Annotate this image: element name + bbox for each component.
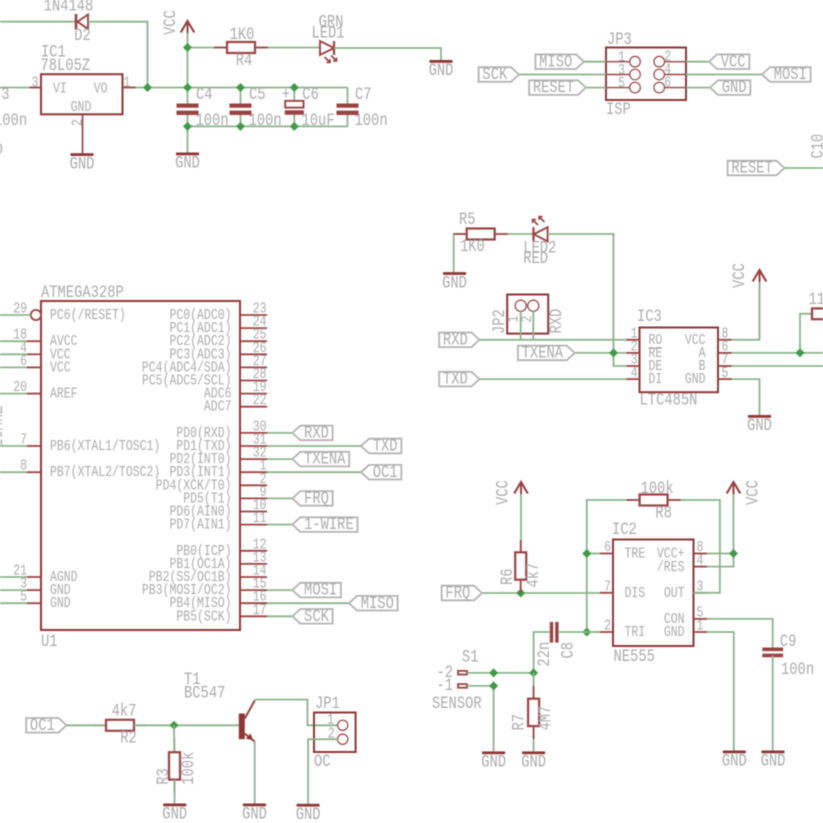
svg-text:PB7(XTAL2/TOSC2): PB7(XTAL2/TOSC2)	[50, 464, 160, 481]
svg-text:6: 6	[664, 74, 671, 91]
svg-text:RXD: RXD	[304, 423, 329, 443]
svg-text:U1: U1	[41, 632, 58, 652]
svg-text:IC3: IC3	[637, 307, 662, 327]
svg-text:7: 7	[604, 578, 611, 595]
microcontroller U1 ATMEGA328P	[41, 283, 240, 652]
svg-text:11: 11	[253, 510, 267, 527]
wire JP3 pin6 to GND	[686, 87, 710, 89]
svg-text:PB5(SCK): PB5(SCK)	[176, 608, 231, 625]
svg-text:GND: GND	[175, 153, 200, 173]
svg-text:JP1: JP1	[315, 694, 340, 714]
wire T1 emitter to GND	[254, 742, 256, 804]
svg-text:R8: R8	[655, 503, 672, 523]
svg-text:OUT: OUT	[664, 585, 685, 602]
svg-text:SCK: SCK	[304, 607, 329, 627]
R7 body	[528, 699, 539, 726]
VCC symbol at IC2	[733, 485, 735, 554]
wire to U1 AREF	[0, 393, 27, 395]
svg-text:4M7: 4M7	[536, 706, 556, 731]
capacitor C3 (cut off at left edge)	[0, 85, 27, 131]
svg-text:GND: GND	[722, 751, 747, 771]
svg-text:SCK: SCK	[482, 65, 507, 85]
wire C8 left to sensor node	[534, 632, 550, 673]
junction R6/FRQ	[516, 588, 525, 597]
wire T1 collector to JP1 pin1	[255, 700, 338, 726]
ground for S1	[482, 751, 505, 754]
net label GND	[710, 80, 750, 95]
wire R8 to IC2 OUT	[668, 500, 720, 593]
wire IC3 GND pin down	[732, 379, 760, 415]
svg-text:RESET: RESET	[731, 158, 772, 178]
resistor R7 4M7	[509, 699, 555, 731]
ground for JP1	[297, 804, 320, 807]
capacitor C9 100n	[762, 632, 814, 680]
wire R7 to GND	[533, 726, 535, 751]
svg-text:BC547: BC547	[184, 683, 225, 703]
svg-text:RXD: RXD	[443, 330, 468, 350]
wire to U1 /RESET	[0, 314, 31, 316]
svg-text:R5: R5	[459, 210, 476, 230]
svg-text:C10: C10	[808, 134, 823, 159]
svg-text:R3: R3	[154, 768, 174, 785]
svg-text:ATMEGA328P: ATMEGA328P	[41, 283, 124, 303]
wire to U1 GND	[0, 589, 27, 591]
wire to U1 AVCC	[0, 340, 27, 342]
IC2 pin 4	[694, 566, 708, 568]
U1 pin 23 (PC0(ADC0))	[240, 314, 267, 316]
svg-text:4k7: 4k7	[524, 563, 544, 588]
junction	[236, 122, 245, 131]
voltage regulator IC1 78L05Z	[30, 42, 136, 153]
net label RESET	[728, 161, 785, 176]
U1 pin 3 (GND)	[27, 589, 41, 591]
U1 pin 24 (PC1(ADC1))	[240, 327, 267, 329]
svg-text:C8: C8	[558, 642, 578, 659]
svg-text:OC1: OC1	[30, 716, 55, 736]
LED1 GRN	[311, 12, 344, 62]
svg-text:GND: GND	[0, 140, 3, 160]
wire RESET to C10 at right edge	[785, 167, 823, 169]
svg-text:AREF: AREF	[50, 385, 78, 402]
svg-text:GND: GND	[481, 752, 506, 772]
LED2 RED	[523, 217, 556, 269]
net label 1-WIRE	[292, 517, 357, 532]
wire IC2 pin4 to VCC	[707, 554, 734, 567]
svg-text:IC2: IC2	[612, 520, 637, 540]
net label MISO	[349, 596, 398, 611]
svg-text:1K0: 1K0	[230, 25, 255, 45]
wire S1 -2 to C8/R7 node	[467, 672, 534, 674]
svg-text:TXENA: TXENA	[522, 343, 564, 363]
svg-text:JP2: JP2	[490, 309, 510, 334]
wire TXD to IC3 DI	[480, 378, 627, 380]
wire JP3 pin4 to MOSI	[686, 74, 762, 76]
pin 2	[82, 114, 84, 153]
svg-text:-1: -1	[436, 676, 453, 696]
wire IC3 A to right edge	[732, 352, 823, 354]
svg-text:22: 22	[253, 392, 267, 409]
wire LED2 anode to TXENA node	[548, 234, 614, 353]
svg-text:VCC: VCC	[730, 263, 750, 288]
IC2 pin 5	[694, 618, 708, 620]
VCC symbol at IC3	[759, 273, 761, 340]
svg-text:7: 7	[20, 431, 27, 448]
svg-text:GND: GND	[442, 273, 467, 293]
wire U1 PB4(MISO) to MISO	[267, 602, 349, 604]
wire JP1 pin2 to GND	[308, 739, 338, 804]
svg-text:4: 4	[697, 552, 704, 569]
U1 pin 15 (PB3(MOSI/OC2))	[240, 589, 267, 591]
junction	[236, 83, 245, 92]
wire collector	[254, 699, 256, 701]
net label MISO	[535, 54, 584, 69]
IC2 pin 1	[694, 631, 708, 633]
pin header JP2 RXD jumper	[490, 295, 567, 335]
U1 pin 2 (PD4(XCK/T0))	[240, 484, 267, 486]
component lead stubs	[93, 48, 681, 793]
ground for R3	[163, 804, 186, 807]
diode D2 1N4148	[44, 0, 94, 45]
capacitor C5 100n	[230, 85, 282, 131]
svg-text:GND: GND	[242, 804, 267, 823]
svg-text:VCC: VCC	[50, 359, 71, 376]
net label OC1	[26, 718, 66, 733]
wire to U1 PB7(XTAL2/TOSC2)	[0, 471, 27, 473]
wire GND bottom bus	[188, 125, 348, 127]
VCC symbol at R6	[520, 485, 522, 552]
net label OC1	[361, 465, 401, 480]
svg-text:C9: C9	[780, 632, 797, 652]
U1 pin 28 (PC5(ADC5/SCL))	[240, 380, 267, 382]
junction TRE	[582, 549, 591, 558]
U1 pin 19 (ADC6)	[240, 393, 267, 395]
wire IC3 B to right edge	[732, 365, 823, 367]
net label FRQ	[442, 586, 482, 601]
wire to U1 VCC	[0, 353, 27, 355]
svg-text:11: 11	[809, 290, 823, 310]
U1 pin 6 (VCC)	[27, 366, 41, 368]
net label TXD	[439, 372, 479, 387]
wire LED1 cathode to GND	[334, 48, 441, 60]
svg-text:GND: GND	[521, 752, 546, 772]
svg-text:MISO: MISO	[361, 593, 394, 613]
pin 1	[123, 87, 136, 89]
svg-text:1N4148: 1N4148	[44, 0, 94, 16]
svg-text:8: 8	[20, 458, 27, 475]
wire U1 PD2(INT0) to TXENA	[267, 458, 292, 460]
wire IC2 GND pin down	[707, 632, 734, 751]
wire R2 to T1 base	[134, 724, 239, 726]
net label SCK	[292, 609, 332, 624]
IC3 pin 3 (DE)	[627, 365, 640, 367]
svg-text:MOSI: MOSI	[774, 65, 807, 85]
R8 body	[640, 495, 668, 506]
net label RXD	[292, 426, 332, 441]
wire MISO to JP3 pin1	[584, 61, 606, 63]
svg-text:4k7: 4k7	[112, 701, 137, 721]
svg-text:TXD: TXD	[443, 369, 468, 389]
svg-text:GND: GND	[71, 99, 92, 116]
svg-text:GND: GND	[722, 78, 747, 98]
IC2 pin 7 (DIS)	[600, 592, 613, 594]
svg-text:2: 2	[69, 119, 86, 126]
U1 pin 4 (VCC)	[27, 353, 41, 355]
svg-text:C7: C7	[355, 85, 372, 105]
wire TRE to TRI	[587, 554, 600, 633]
RS485 transceiver IC3 LTC485N	[627, 307, 732, 410]
svg-text:5: 5	[722, 365, 729, 382]
svg-text:DI: DI	[649, 371, 663, 388]
svg-text:D2: D2	[74, 25, 91, 45]
wire R5 to LED2	[495, 233, 534, 235]
pin 3	[30, 87, 42, 89]
U1 pin 29 (PC6(/RESET))	[31, 310, 41, 320]
svg-text:6: 6	[604, 539, 611, 556]
svg-text:22n: 22n	[535, 642, 555, 667]
U1 pin 11 (PD7(AIN1))	[240, 524, 267, 526]
svg-text:100n: 100n	[0, 111, 27, 131]
wire U1 PB5(SCK) to SCK	[267, 615, 292, 617]
svg-text:20: 20	[13, 379, 27, 396]
ground for T1	[243, 804, 266, 807]
svg-text:ADC7: ADC7	[204, 399, 232, 416]
svg-text:100n: 100n	[249, 111, 282, 131]
svg-text:100n: 100n	[196, 111, 229, 131]
junction on -2 wire	[489, 668, 498, 677]
svg-text:LTC485N: LTC485N	[640, 390, 698, 410]
wire U1 PD3(INT1) to OC1	[267, 471, 361, 473]
U1 pin 20 (AREF)	[27, 393, 41, 395]
svg-text:RXD: RXD	[547, 309, 567, 334]
wire C9 to GND	[772, 655, 774, 750]
junction	[183, 43, 192, 52]
junction	[143, 83, 152, 92]
svg-text:VCC: VCC	[493, 480, 513, 505]
svg-text:GND: GND	[70, 154, 95, 174]
junction R2/R3/base	[169, 721, 178, 730]
resistor R5 1K0	[459, 210, 495, 257]
U1 pin 18 (AVCC)	[27, 340, 41, 342]
net label MOSI	[762, 67, 811, 82]
wire IC3 VCC pin up	[732, 270, 760, 340]
wire JP3 pin2 to VCC	[686, 61, 709, 63]
R2 body	[106, 720, 134, 731]
svg-text:MOSI: MOSI	[304, 580, 337, 600]
wire R3 to GND	[174, 780, 176, 804]
wire IC2 CON to C9	[707, 619, 773, 649]
svg-text:VO: VO	[94, 80, 108, 97]
net label TXD	[361, 439, 401, 454]
svg-text:SENSOR: SENSOR	[432, 694, 482, 714]
net label MOSI	[292, 583, 341, 598]
U1 pin 16 (PB4(MISO))	[240, 602, 267, 604]
wire R6 to FRQ line	[520, 580, 522, 593]
svg-text:10uF: 10uF	[302, 111, 335, 131]
U1 pin 5 (GND)	[27, 602, 41, 604]
ground for R7	[522, 751, 545, 754]
svg-text:4: 4	[631, 365, 638, 382]
ground for R5	[443, 272, 466, 275]
net label TXENA	[518, 346, 575, 361]
svg-text:GND: GND	[664, 624, 685, 641]
net label TXENA	[292, 452, 349, 467]
resistor R3 100k	[154, 752, 199, 785]
junction	[183, 83, 192, 92]
wire junction to R3	[173, 725, 175, 752]
svg-text:78L05Z: 78L05Z	[41, 55, 91, 75]
svg-text:2: 2	[604, 618, 611, 635]
VCC symbol top	[187, 24, 189, 48]
svg-text:GND: GND	[685, 371, 706, 388]
U1 pin 26 (PC3(ADC3))	[240, 353, 267, 355]
wire FRQ to IC2 DIS	[482, 592, 600, 594]
junction TXENA/LED2/RE/DE	[609, 348, 618, 357]
wire TXENA node to IC3 DE	[614, 353, 627, 366]
resistor R2 4k7	[106, 701, 137, 748]
svg-text:GND: GND	[761, 751, 786, 771]
svg-text:100k: 100k	[179, 752, 199, 785]
ground under IC1	[71, 153, 94, 156]
svg-text:1: 1	[697, 618, 704, 635]
U1 pin 13 (PB1(OC1A))	[240, 563, 267, 565]
svg-text:PD7(AIN1): PD7(AIN1)	[169, 516, 231, 533]
pin header JP3 ISP	[606, 30, 686, 120]
svg-text:NE555: NE555	[614, 647, 655, 667]
svg-text:TXENA: TXENA	[304, 449, 346, 469]
svg-text:VCC: VCC	[721, 52, 746, 72]
IC3 pin 7 (B)	[718, 365, 732, 367]
wire VCC to R4	[188, 47, 228, 49]
resistor at right edge (cut off)	[800, 290, 823, 353]
U1 pin 10 (PD6(AIN0))	[240, 511, 267, 513]
svg-text:MISO: MISO	[539, 52, 572, 72]
wire from left edge to D2 cathode	[0, 21, 76, 23]
capacitor C7 100n	[337, 85, 388, 131]
svg-text:6: 6	[20, 353, 27, 370]
U1 pin 9 (PD5(T1))	[240, 497, 267, 499]
wire to U1 AGND	[0, 576, 27, 578]
svg-text:S1: S1	[462, 647, 479, 667]
ground under C4	[176, 153, 199, 156]
wire VCC top bus	[136, 87, 348, 89]
wire JP2 pin1 down	[520, 311, 522, 340]
wire bottom bus to GND	[187, 126, 189, 152]
IC3 pin 8 (VCC)	[718, 339, 732, 341]
svg-text:RESET: RESET	[533, 78, 574, 98]
ground for LED1	[430, 60, 453, 63]
svg-text:PB6(XTAL1/TOSC1): PB6(XTAL1/TOSC1)	[50, 438, 160, 455]
capacitor C6 10uF polarized	[282, 85, 335, 131]
svg-text:ISP: ISP	[606, 100, 631, 120]
U1 pin 22 (ADC7)	[240, 406, 267, 408]
svg-text:GND: GND	[747, 416, 772, 436]
resistor R4 1K0	[227, 25, 255, 71]
svg-text:100n: 100n	[355, 111, 388, 131]
junction on -1 wire	[489, 681, 498, 690]
pin header JP1 OC	[314, 694, 356, 772]
net label RESET	[529, 80, 586, 95]
IC3 pin 4 (DI)	[627, 378, 640, 380]
resistor R4 body	[227, 42, 255, 53]
wire to U1 PB6(XTAL1/TOSC1)	[0, 445, 27, 447]
R5 body	[467, 229, 495, 240]
svg-text:5: 5	[618, 75, 625, 92]
wire RESET to JP3 pin5	[586, 87, 606, 89]
wire OC1 to R2	[67, 724, 107, 726]
wire JP2 pin2 down	[532, 311, 534, 340]
svg-text:TRI: TRI	[625, 624, 646, 641]
resistor R6 4k7	[498, 552, 544, 587]
svg-text:+: +	[282, 85, 290, 105]
wire C8 right to TRI	[559, 631, 600, 633]
svg-text:DIS: DIS	[625, 585, 646, 602]
U1 pin 21 (AGND)	[27, 576, 41, 578]
wire TRE node up to R8	[587, 500, 640, 554]
ground for IC2	[723, 751, 746, 754]
svg-text:C6: C6	[302, 85, 319, 105]
IC3 pin 2 (RE)	[627, 352, 640, 354]
svg-text:GND: GND	[50, 595, 71, 612]
U1 pin 27 (PC4(ADC4/SDA))	[240, 366, 267, 368]
IC2 pin 6 (TRE)	[600, 553, 613, 555]
junction TRI	[582, 627, 591, 636]
svg-text:FRQ: FRQ	[304, 489, 329, 509]
svg-text:R2: R2	[120, 728, 137, 748]
IC3 pin 5 (GND)	[718, 378, 732, 380]
wire U1 PD0(RXD) to RXD	[267, 432, 292, 434]
svg-text:5: 5	[20, 589, 27, 606]
U1 pin 30 (PD0(RXD))	[240, 432, 267, 434]
svg-text:29: 29	[13, 300, 27, 317]
wire SCK to JP3 pin3	[519, 74, 606, 76]
svg-text:100n: 100n	[781, 660, 814, 680]
svg-text:R6: R6	[498, 568, 518, 585]
wire VCC arrow to bus	[187, 48, 189, 88]
IC2 pin 3	[694, 592, 708, 594]
junction	[183, 122, 192, 131]
U1 pin 12 (PB0(ICP))	[240, 550, 267, 552]
wire U1 PB3(MOSI/OC2) to MOSI	[267, 589, 292, 591]
IC2 pin 2 (TRI)	[600, 631, 613, 633]
wire C3 to IC1 VI	[0, 87, 30, 89]
U1 pin 1 (PD3(INT1))	[240, 471, 267, 473]
U1 pin 31 (PD1(TXD))	[240, 445, 267, 447]
net label VCC	[709, 54, 749, 69]
svg-text:GND: GND	[296, 805, 321, 823]
svg-text:17: 17	[253, 602, 267, 619]
wire to U1 GND	[0, 602, 27, 604]
svg-text:1: 1	[124, 74, 131, 91]
wire R4 to LED1	[255, 47, 320, 49]
wire TXENA to IC3 RE	[575, 352, 627, 354]
svg-text:C4: C4	[196, 85, 213, 105]
svg-text:1-WIRE: 1-WIRE	[304, 515, 354, 535]
U1 pin 32 (PD2(INT0))	[240, 458, 267, 460]
svg-text:GND: GND	[162, 804, 187, 823]
svg-text:TXD: TXD	[373, 436, 398, 456]
ground for C9	[762, 751, 785, 754]
switch S1 SENSOR	[432, 647, 482, 713]
timer IC2 NE555	[600, 520, 707, 667]
R6 body	[515, 552, 526, 579]
capacitor C8 22n	[535, 622, 578, 667]
svg-text:1K0: 1K0	[460, 236, 485, 256]
svg-text:R4: R4	[236, 51, 253, 71]
U1 pin 8 (PB7(XTAL2/TOSC2))	[27, 471, 41, 473]
svg-text:PC6(/RESET): PC6(/RESET)	[50, 307, 126, 324]
svg-text:VCC: VCC	[743, 480, 763, 505]
wire U1 PD5(T1) to FRQ	[267, 497, 292, 499]
